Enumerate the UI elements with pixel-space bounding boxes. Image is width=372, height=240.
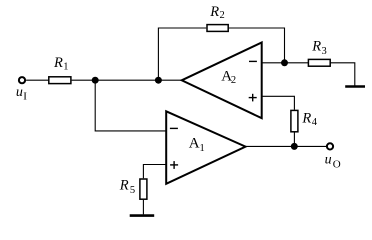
- svg-text:R: R: [119, 178, 129, 194]
- svg-text:R: R: [311, 39, 321, 55]
- svg-text:I: I: [23, 90, 27, 102]
- label R4: [301, 111, 317, 129]
- op-amp A2 (points left): [182, 43, 262, 119]
- op-amp A1 (points right): [166, 111, 245, 184]
- wire R5 to ground: [142, 200, 144, 215]
- wire R2 to inverting node: [229, 28, 285, 63]
- node dot3: [281, 59, 288, 66]
- wire A2 noninverting input to R4: [262, 96, 295, 109]
- wire R1 to A2 apex: [72, 79, 182, 81]
- label uO: [325, 152, 341, 170]
- svg-text:4: 4: [312, 117, 318, 128]
- label R3: [311, 39, 327, 57]
- output terminal uO: [327, 143, 333, 149]
- svg-text:O: O: [333, 159, 341, 171]
- wire R4 to output node: [293, 133, 295, 147]
- svg-text:u: u: [16, 85, 23, 100]
- ground (right): [345, 85, 365, 88]
- wire A1 noninverting input to R5: [143, 165, 166, 179]
- resistor R3: [308, 59, 330, 66]
- svg-text:u: u: [325, 152, 332, 167]
- output wire A1 to uO: [246, 145, 327, 147]
- resistor R2: [207, 25, 228, 32]
- label R2: [209, 4, 225, 21]
- node dot2: [155, 77, 162, 84]
- wire R3 to ground: [331, 63, 355, 86]
- label A2: [221, 68, 236, 86]
- svg-text:R: R: [301, 111, 311, 127]
- node dot4: [291, 143, 298, 150]
- wire dot2 up to feedback R2: [158, 28, 206, 80]
- svg-text:1: 1: [63, 61, 68, 72]
- ground (bottom): [130, 214, 155, 217]
- wire dot1 down to A1 inverting input: [95, 80, 166, 131]
- resistor R1: [49, 77, 71, 84]
- svg-text:3: 3: [322, 46, 327, 57]
- label u1: [16, 85, 27, 102]
- svg-text:1: 1: [200, 143, 205, 154]
- label R1: [53, 55, 69, 72]
- svg-text:2: 2: [231, 75, 236, 86]
- input terminal u1: [19, 77, 25, 83]
- svg-text:2: 2: [220, 10, 225, 21]
- wire input to R1: [26, 79, 48, 81]
- wire dot3 to R3: [285, 62, 309, 64]
- resistor R4: [291, 110, 298, 131]
- svg-text:A: A: [189, 136, 200, 152]
- svg-text:R: R: [209, 4, 219, 20]
- A1 plus sign: [170, 161, 178, 169]
- node dot1: [92, 77, 99, 84]
- resistor R5: [140, 179, 147, 199]
- A1 minus sign: [170, 127, 178, 129]
- A2 plus sign: [249, 94, 257, 102]
- svg-text:R: R: [53, 55, 63, 71]
- wire A2 inverting input to node dot3: [262, 62, 285, 64]
- A2 minus sign: [249, 60, 257, 62]
- svg-text:5: 5: [130, 185, 135, 196]
- label R5: [119, 178, 135, 197]
- label A1: [189, 136, 205, 154]
